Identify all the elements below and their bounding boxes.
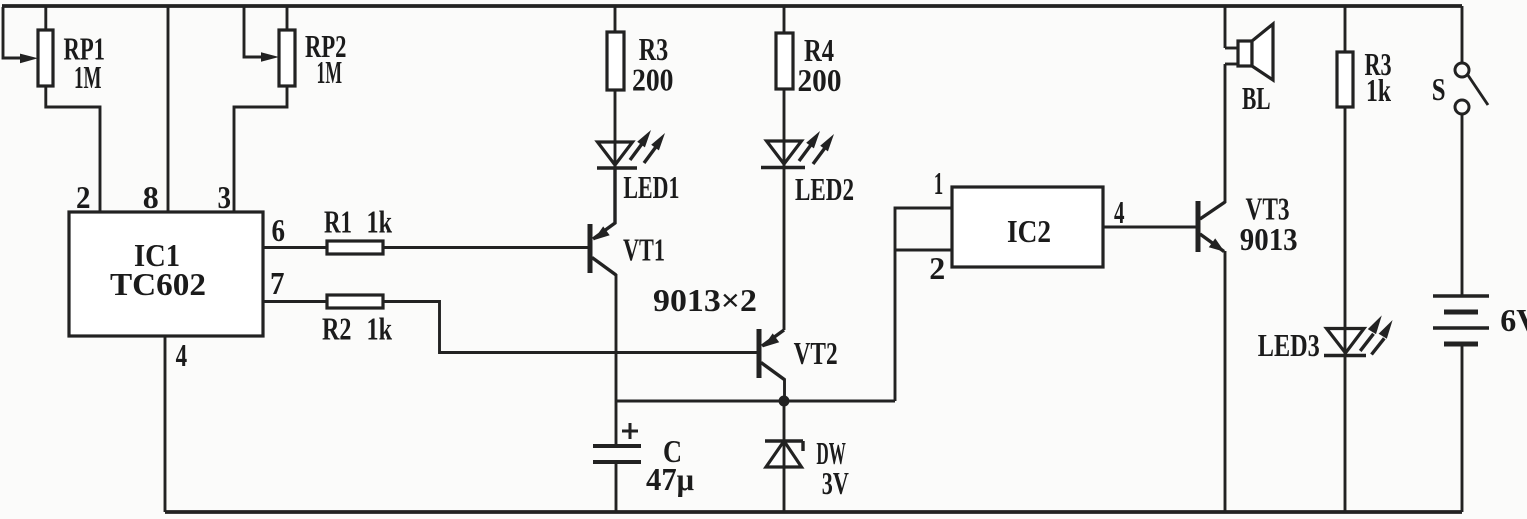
wire switch to battery xyxy=(1461,115,1464,297)
IC U1 (IC1 TC602) xyxy=(69,212,263,336)
wire R3 to LED3 xyxy=(1344,107,1347,328)
wire R3 top from rail xyxy=(614,6,617,32)
svg-text:S: S xyxy=(1432,71,1446,107)
svg-text:6V: 6V xyxy=(1500,302,1527,338)
wire DW to ground xyxy=(783,467,786,512)
svg-text:1k: 1k xyxy=(367,311,393,347)
svg-text:VT2: VT2 xyxy=(794,335,838,371)
resistor R1 xyxy=(327,241,383,254)
switch S xyxy=(1455,63,1488,114)
potentiometer RP2 xyxy=(261,6,295,86)
wire VT3 collector to speaker xyxy=(1224,64,1227,203)
svg-text:200: 200 xyxy=(632,62,674,98)
wire LED2 to VT2 collector xyxy=(783,168,786,330)
svg-text:9013×2: 9013×2 xyxy=(653,282,757,318)
svg-text:1k: 1k xyxy=(367,204,393,240)
svg-text:LED2: LED2 xyxy=(795,171,854,207)
svg-text:9013: 9013 xyxy=(1240,221,1298,257)
wire junction to zener DW xyxy=(783,405,786,441)
svg-text:BL: BL xyxy=(1242,80,1271,116)
svg-text:3V: 3V xyxy=(822,465,849,501)
wire junction horizontal xyxy=(616,400,895,403)
capacitor C xyxy=(593,423,641,462)
LED LED3 xyxy=(1324,315,1393,355)
resistor R3 (200) xyxy=(607,32,624,90)
wire RP1 wiper arm from top rail xyxy=(3,7,22,58)
transistor VT3 xyxy=(1198,201,1225,252)
resistor R3 (1k) xyxy=(1337,52,1353,107)
LED LED1 xyxy=(597,130,665,168)
wire R4 to LED2 xyxy=(783,89,786,141)
potentiometer RP1 xyxy=(20,6,53,86)
svg-text:IC2: IC2 xyxy=(1007,213,1051,249)
svg-text:LED3: LED3 xyxy=(1258,327,1320,363)
svg-text:1: 1 xyxy=(934,165,944,201)
junction node dot xyxy=(779,396,790,407)
svg-text:R2: R2 xyxy=(322,311,352,347)
svg-text:47μ: 47μ xyxy=(646,461,694,497)
svg-text:1M: 1M xyxy=(74,59,102,95)
battery B1 6V xyxy=(1433,296,1489,344)
transistor VT2 xyxy=(759,329,785,380)
wire junction to IC2 pin 1 xyxy=(895,208,952,401)
zener diode DW xyxy=(765,441,803,467)
speaker BL xyxy=(1225,24,1273,80)
wire battery to ground rail xyxy=(1461,344,1464,512)
wire R4 top from rail xyxy=(783,6,786,33)
svg-text:4: 4 xyxy=(176,337,188,373)
wire C to ground xyxy=(615,462,618,512)
svg-text:TC602: TC602 xyxy=(110,266,206,302)
svg-text:1M: 1M xyxy=(317,54,343,90)
resistor R4 xyxy=(776,33,793,89)
wire top rail to switch xyxy=(1461,6,1464,63)
svg-text:7: 7 xyxy=(270,265,285,301)
svg-text:6: 6 xyxy=(272,212,286,248)
wire VT3 emitter to ground xyxy=(1224,251,1227,512)
svg-text:2: 2 xyxy=(76,179,91,215)
svg-text:8: 8 xyxy=(143,179,159,215)
wire R3 to LED1 xyxy=(614,90,617,142)
svg-text:2: 2 xyxy=(929,250,945,286)
svg-text:VT1: VT1 xyxy=(623,232,665,268)
transistor VT1 xyxy=(590,168,616,275)
wire VT2 emitter to junction xyxy=(783,379,786,401)
IC U2 (IC2) xyxy=(952,187,1103,267)
svg-text:4: 4 xyxy=(1114,194,1125,230)
wire to IC2 pin 2 xyxy=(895,249,952,252)
svg-text:200: 200 xyxy=(798,62,842,98)
wire RP1 bottom terminal to IC1 pin 2 xyxy=(46,86,100,212)
svg-text:LED1: LED1 xyxy=(623,169,679,205)
wire RP2 wiper arm from top rail xyxy=(244,7,262,57)
wire RP2 bottom terminal to IC1 pin 3 xyxy=(234,86,287,212)
wire IC1 pin 8 from top rail xyxy=(167,6,170,212)
wire VT1 emitter to capacitor C xyxy=(615,274,618,446)
wire R1 to VT1 base xyxy=(383,246,588,249)
svg-text:3: 3 xyxy=(218,179,232,215)
wire IC2 pin 4 to VT3 base xyxy=(1103,226,1196,229)
wire IC1 pin 6 to R1 xyxy=(263,246,327,249)
wire bottom ground rail xyxy=(165,510,1462,514)
resistor R2 xyxy=(327,295,383,308)
wire LED3 to ground xyxy=(1344,355,1347,512)
wire IC1 pin 7 to R2 xyxy=(263,300,327,303)
wire IC1 pin 4 to ground xyxy=(164,336,167,512)
wire speaker feed from top rail xyxy=(1224,6,1227,48)
LED LED2 xyxy=(761,131,834,168)
wire R3 right from top rail xyxy=(1344,6,1347,52)
svg-text:R1: R1 xyxy=(324,204,352,240)
wire top supply rail xyxy=(2,4,1462,8)
svg-text:1k: 1k xyxy=(1366,72,1391,108)
wire R2 to VT2 base xyxy=(383,302,757,353)
